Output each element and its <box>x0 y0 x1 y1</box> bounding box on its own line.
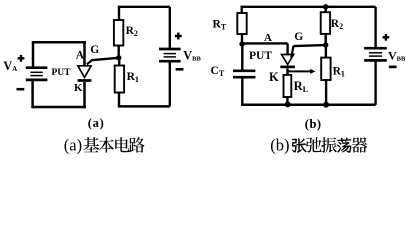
wire: RT bottom lead (b) <box>241 34 243 44</box>
node: top rail / R2 junction (b) <box>323 4 328 9</box>
node: RT/CT/anode junction (b) <box>239 41 244 46</box>
wire: circuit a, cathode down lead <box>83 82 86 108</box>
svg-text:G: G <box>90 44 99 56</box>
wire: cathode lead bar-to-RL (b) <box>286 68 288 75</box>
wire: circuit a, left-loop bottom wire <box>31 106 86 109</box>
wire: RL bottom lead to rail (b) <box>286 97 288 105</box>
svg-text:K: K <box>74 82 83 94</box>
wire: circuit b, bottom rail <box>241 104 376 107</box>
wire: R2 bottom lead to node (a) <box>117 46 119 58</box>
transistor PUT (circuit a) <box>78 66 91 78</box>
wire: circuit a, anode lead from top wire <box>83 42 86 67</box>
resistor R2 (circuit a) <box>114 20 123 46</box>
wire: circuit a, battery bottom lead <box>31 80 34 108</box>
wire: circuit a, left-loop top wire <box>32 41 86 44</box>
resistor R1 (circuit a) <box>115 66 124 93</box>
node: gate/divider junction (b) <box>323 42 328 47</box>
wire: R1 bottom lead (b) <box>325 80 327 105</box>
label + (VBB b) <box>383 36 390 38</box>
wire: VBB bottom lead (b) <box>374 60 376 104</box>
node: gate/divider junction (a) <box>116 55 121 60</box>
wire: VBB bottom lead (a) <box>169 61 171 106</box>
wire: gate horizontal to divider node (b) <box>293 45 325 46</box>
label - (VA negative) <box>17 88 25 91</box>
wire: gate diagonal (b) <box>291 46 293 58</box>
resistor R1 (circuit b) <box>321 58 330 80</box>
wire: circuit a, divider bottom wire <box>118 105 170 108</box>
wire: VBB top lead (a) <box>169 7 171 48</box>
wire: circuit a, left vertical (battery top lead) <box>32 42 35 67</box>
wire: VBB top lead (b) <box>374 7 376 47</box>
wire: R1 bottom lead (a) <box>118 93 120 107</box>
node: R1/bottom-rail junction (b) <box>323 102 329 108</box>
svg-text:(a): (a) <box>64 136 82 155</box>
label + (VBB a) <box>175 35 182 37</box>
svg-text:A: A <box>76 50 85 62</box>
label - (VBB b) <box>389 66 397 69</box>
transistor PUT (circuit b) <box>282 55 294 65</box>
resistor RL (b) <box>284 75 292 97</box>
capacitor CT (b) <box>233 69 255 72</box>
wire: anode vertical into PUT (b) <box>286 43 288 55</box>
wire: RT top lead (b) <box>240 7 242 13</box>
svg-text:G: G <box>294 31 303 43</box>
svg-text:A: A <box>264 32 272 44</box>
svg-text:PUT: PUT <box>52 68 72 78</box>
wire: R1 top lead (b) <box>325 45 327 58</box>
node: RL/bottom-rail junction (b) <box>285 101 291 107</box>
battery VA <box>26 66 48 69</box>
battery VBB (circuit a) <box>159 48 181 51</box>
wire: gate diagonal (circuit a) <box>87 60 92 64</box>
output arrow at cathode node (b) <box>288 70 311 72</box>
svg-text:(b): (b) <box>270 136 289 155</box>
resistor R2 (circuit b) <box>321 12 330 34</box>
wire: CT top lead (b) <box>241 44 243 70</box>
wire: R2 top lead (a) <box>118 7 120 20</box>
wire: CT bottom lead (b) <box>241 79 243 107</box>
wire: anode horizontal (b) <box>242 42 288 44</box>
wire: R2 bottom lead (b) <box>325 34 327 45</box>
svg-text:(b): (b) <box>305 117 322 131</box>
wire: circuit a, divider top wire <box>118 6 170 8</box>
label - (VBB a) <box>176 68 184 71</box>
wire: R2 top lead (b) <box>325 7 327 12</box>
battery VBB (circuit b) <box>364 47 387 50</box>
wire: gate horizontal to divider node (circuit a) <box>91 58 118 60</box>
svg-text:K: K <box>269 70 279 84</box>
label + (VA positive) <box>18 57 25 59</box>
wire: circuit b, top rail <box>241 6 376 8</box>
svg-text:(a): (a) <box>88 116 105 130</box>
resistor RT (circuit b) <box>237 13 246 34</box>
wire: R1 top lead (a) <box>118 58 120 66</box>
svg-text:PUT: PUT <box>249 50 272 62</box>
